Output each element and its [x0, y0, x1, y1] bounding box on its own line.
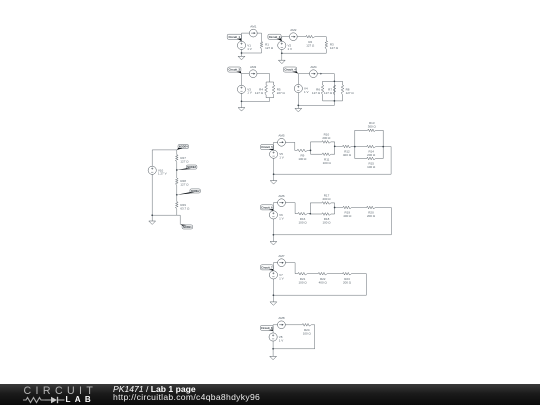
wire — [294, 142, 296, 150]
junction trio output — [382, 146, 384, 148]
ground — [270, 242, 277, 245]
svg-text:1.27 V: 1.27 V — [158, 172, 167, 176]
logo resistor zigzag — [23, 397, 45, 402]
wire parallel bottom rail — [323, 95, 343, 101]
wire top — [273, 202, 295, 204]
svg-text:127 Ω: 127 Ω — [306, 43, 315, 47]
wire — [295, 213, 298, 215]
wire top — [273, 262, 295, 264]
resistor R12 — [343, 145, 352, 157]
svg-text:1 V: 1 V — [304, 90, 309, 94]
wire — [269, 98, 271, 102]
wire — [241, 94, 243, 108]
wire — [151, 150, 153, 166]
wire — [269, 74, 271, 82]
wire bottom — [273, 294, 366, 296]
wire — [261, 49, 263, 53]
wire — [383, 146, 391, 148]
svg-text:127 Ω: 127 Ω — [330, 46, 339, 50]
resistor R18 — [322, 213, 331, 225]
resistor R15 — [367, 157, 376, 169]
wire — [308, 149, 311, 151]
ground — [270, 302, 277, 305]
voltage source V4 — [294, 84, 308, 94]
wire — [325, 49, 327, 53]
wire — [297, 93, 299, 109]
ground — [149, 221, 156, 224]
wire — [273, 142, 275, 150]
voltage source V1 — [237, 41, 251, 50]
svg-text:AM8: AM8 — [278, 316, 285, 320]
voltage source V5 — [270, 150, 284, 160]
wire — [281, 37, 283, 42]
svg-text:1 V: 1 V — [247, 91, 252, 95]
wire top — [152, 149, 177, 151]
wire between R27 R28 — [176, 162, 178, 178]
resistor R3 — [325, 41, 339, 50]
resistor R11 — [322, 153, 331, 165]
ground — [278, 60, 285, 63]
resistor R2 — [306, 35, 315, 47]
resistor R7 — [324, 85, 336, 95]
ammeter AM8 — [278, 316, 286, 328]
junction at V5 bottom — [273, 173, 275, 175]
svg-text:Circuit_1: Circuit_1 — [229, 35, 241, 39]
wire right side — [390, 147, 392, 175]
svg-text:AM5: AM5 — [278, 134, 285, 138]
wire bottom — [298, 104, 334, 106]
label Circuit_1 — [227, 34, 241, 41]
svg-text:1 V: 1 V — [288, 47, 293, 51]
resistor R14 — [367, 145, 376, 157]
svg-text:Circuit_8: Circuit_8 — [261, 326, 273, 330]
wire parallel trio right rail — [376, 130, 384, 158]
svg-text:100 Ω: 100 Ω — [322, 221, 331, 225]
svg-text:200 Ω: 200 Ω — [343, 280, 352, 284]
voltage source V6 — [269, 211, 283, 221]
junction pair output — [334, 146, 336, 148]
resistor R24 — [302, 324, 311, 336]
svg-text:Circuit_5: Circuit_5 — [261, 145, 273, 149]
svg-text:Circuit_7: Circuit_7 — [261, 266, 273, 270]
resistor R9 — [297, 149, 307, 161]
wire — [295, 149, 297, 151]
wire between R19 R20 — [352, 207, 367, 209]
wire — [333, 74, 335, 82]
label Circuit_4 — [284, 67, 299, 74]
svg-text:1 V: 1 V — [279, 276, 284, 280]
wire parallel top rail — [323, 81, 343, 85]
svg-text:1 V: 1 V — [279, 338, 284, 342]
ammeter AM1 — [249, 25, 257, 38]
ground — [270, 181, 277, 184]
wire — [294, 203, 296, 214]
wire parallel bottom rail — [266, 95, 274, 98]
junction pair output — [334, 207, 336, 209]
wire middle branch rail — [333, 81, 335, 101]
wire between R22 R23 — [327, 273, 342, 275]
wire right side — [390, 208, 392, 235]
wire — [151, 174, 153, 221]
wire — [177, 214, 180, 216]
junction trio input — [354, 146, 356, 148]
label Circuit_5 — [261, 145, 274, 151]
svg-text:100 Ω: 100 Ω — [299, 280, 308, 284]
label Circuit_8 — [261, 325, 274, 331]
wire parallel top rail — [266, 82, 274, 85]
svg-text:400 Ω: 400 Ω — [343, 153, 352, 157]
wire between R21 R22 — [307, 273, 318, 275]
svg-text:Circuit_6: Circuit_6 — [261, 206, 273, 210]
ammeter AM6 — [278, 194, 286, 207]
node NODE1 — [180, 224, 192, 229]
wire — [272, 325, 274, 333]
label Circuit_2 — [268, 34, 282, 41]
wire top right — [315, 36, 327, 38]
CircuitLab logo — [23, 385, 118, 405]
junction NODE3 — [176, 169, 178, 171]
wire — [272, 263, 274, 271]
wire — [295, 273, 298, 275]
wire — [241, 50, 243, 57]
wire — [272, 219, 274, 242]
voltage source V3 — [237, 85, 251, 94]
wire — [176, 209, 178, 215]
svg-text:1 V: 1 V — [247, 47, 252, 51]
node NODE3 — [177, 165, 197, 170]
svg-text:AM1: AM1 — [250, 25, 257, 29]
resistor R22 — [318, 272, 327, 284]
wire bottom — [273, 348, 315, 350]
wire — [272, 203, 274, 211]
resistor R10 — [322, 133, 331, 144]
wire trio middle right — [376, 146, 384, 148]
svg-text:127 Ω: 127 Ω — [346, 91, 355, 95]
resistor R1 — [260, 42, 274, 51]
resistor R8 — [341, 85, 354, 95]
junction at V8 bottom — [272, 348, 274, 350]
resistor R29 — [176, 202, 191, 211]
voltage source V7 — [269, 271, 283, 281]
svg-text:100 Ω: 100 Ω — [299, 220, 308, 224]
junction at V2 bottom — [281, 52, 283, 54]
wire top — [242, 73, 270, 75]
svg-text:400 Ω: 400 Ω — [319, 280, 328, 284]
junction at V10 bottom — [151, 214, 153, 216]
wire — [325, 37, 327, 41]
wire — [241, 33, 243, 41]
wire bottom — [242, 52, 262, 54]
svg-text:100 Ω: 100 Ω — [303, 331, 312, 335]
node NODE2 — [177, 189, 201, 195]
junction at V1 bottom — [241, 52, 243, 54]
svg-text:Circuit_3: Circuit_3 — [229, 68, 241, 72]
wire — [272, 341, 274, 356]
ammeter AM7 — [278, 254, 286, 267]
wire — [241, 74, 243, 85]
resistor R17 — [322, 194, 331, 205]
svg-text:200 Ω: 200 Ω — [322, 136, 331, 140]
ground — [295, 108, 302, 111]
wire — [176, 150, 178, 155]
svg-text:AM4: AM4 — [310, 65, 317, 69]
wire top left — [282, 36, 306, 38]
svg-text:NODE1: NODE1 — [183, 225, 192, 229]
junction pair input — [309, 213, 311, 215]
svg-text:100 Ω: 100 Ω — [298, 157, 307, 161]
svg-text:127 Ω: 127 Ω — [324, 91, 333, 95]
junction at V7 bottom — [273, 294, 275, 296]
voltage source V2 — [278, 41, 292, 50]
junction at V3 bottom — [241, 100, 243, 102]
resistor R5 — [272, 85, 285, 95]
wire between R28 R29 — [176, 186, 178, 202]
wire parallel pair left rail — [311, 142, 323, 154]
ammeter AM3 — [249, 65, 257, 78]
svg-text:AM6: AM6 — [278, 194, 285, 198]
junction at V6 bottom — [273, 234, 275, 236]
wire — [335, 145, 343, 147]
svg-text:100 Ω: 100 Ω — [367, 165, 376, 169]
label Circuit_3 — [228, 67, 242, 74]
svg-text:127 Ω: 127 Ω — [180, 183, 189, 187]
svg-text:127 Ω: 127 Ω — [265, 46, 274, 50]
svg-text:300 Ω: 300 Ω — [368, 125, 377, 129]
svg-text:127 Ω: 127 Ω — [180, 159, 189, 163]
ground — [238, 56, 245, 59]
resistor R27 — [176, 155, 190, 164]
wire — [351, 145, 354, 147]
resistor R19 — [343, 206, 352, 218]
logo diode — [51, 396, 57, 402]
wire — [311, 324, 314, 326]
resistor R16 — [298, 212, 307, 224]
wire — [281, 50, 283, 61]
resistor R6 — [312, 85, 324, 95]
resistor R21 — [298, 272, 307, 284]
ammeter AM2 — [289, 28, 297, 40]
wire — [335, 207, 343, 209]
svg-text:1 V: 1 V — [279, 156, 284, 160]
page url — [113, 392, 260, 402]
svg-text:Circuit_4: Circuit_4 — [284, 68, 296, 72]
wire parallel pair right rail — [331, 142, 335, 154]
wire top — [298, 73, 334, 75]
svg-text:100 Ω: 100 Ω — [323, 161, 332, 165]
node NODE4 — [177, 145, 189, 151]
ammeter AM5 — [278, 134, 286, 147]
svg-text:127 Ω: 127 Ω — [312, 91, 321, 95]
ground — [238, 108, 245, 111]
svg-text:200 Ω: 200 Ω — [322, 197, 331, 201]
resistor R23 — [343, 272, 352, 284]
svg-text:AM7: AM7 — [278, 254, 285, 258]
junction top rail — [334, 80, 336, 82]
footer bar — [0, 384, 540, 405]
svg-text:Circuit_2: Circuit_2 — [269, 35, 281, 39]
svg-text:AM3: AM3 — [250, 65, 257, 69]
wire bottom — [273, 234, 391, 236]
svg-text:1 V: 1 V — [279, 216, 284, 220]
svg-text:200 Ω: 200 Ω — [367, 214, 376, 218]
resistor R28 — [176, 178, 190, 187]
wire — [307, 213, 310, 215]
wire — [261, 33, 263, 41]
wire bottom — [152, 214, 177, 216]
voltage source V8 — [269, 333, 283, 343]
svg-text:63.7 Ω: 63.7 Ω — [180, 206, 190, 210]
junction NODE2 — [176, 194, 178, 196]
resistor R20 — [367, 206, 376, 218]
svg-text:400 Ω: 400 Ω — [343, 214, 352, 218]
svg-text:227 Ω: 227 Ω — [277, 91, 286, 95]
wire right side — [365, 274, 367, 296]
wire right side — [314, 325, 316, 349]
junction pair input — [310, 150, 312, 152]
wire — [273, 158, 275, 180]
resistor R4 — [255, 85, 267, 95]
wire parallel pair left rail — [310, 203, 322, 214]
wire — [272, 279, 274, 302]
svg-text:127 Ω: 127 Ω — [255, 91, 264, 95]
voltage source V10 — [148, 166, 166, 176]
wire — [297, 74, 299, 85]
junction bottom rail — [334, 100, 336, 102]
wire bottom — [242, 100, 270, 102]
wire trio middle left — [355, 146, 367, 148]
junction at V4 bottom — [297, 105, 299, 107]
label Circuit_6 — [261, 205, 274, 211]
ammeter AM4 — [310, 65, 323, 78]
wire — [375, 207, 391, 209]
ground — [270, 356, 277, 359]
label Circuit_7 — [261, 265, 274, 271]
wire bottom — [274, 173, 392, 175]
wire parallel trio left rail — [355, 130, 368, 158]
svg-text:AM2: AM2 — [290, 28, 297, 32]
svg-text:200 Ω: 200 Ω — [367, 153, 376, 157]
wire — [294, 263, 296, 274]
wire bottom — [282, 52, 327, 54]
wire top — [274, 141, 295, 143]
wire — [333, 101, 335, 106]
wire to NODE1 flag — [179, 215, 181, 224]
wire — [352, 273, 367, 275]
wire top — [242, 32, 262, 34]
resistor R13 — [368, 121, 377, 132]
wire parallel pair right rail — [331, 203, 335, 214]
page title — [113, 384, 196, 394]
wire top — [273, 324, 302, 326]
